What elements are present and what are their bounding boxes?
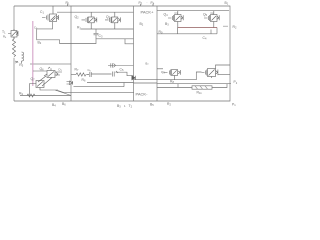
- svg-text:D1: D1: [59, 67, 63, 72]
- svg-text:R1: R1: [66, 1, 70, 6]
- svg-text:R6: R6: [82, 78, 86, 83]
- svg-text:.: .: [147, 0, 148, 4]
- svg-text:C4: C4: [203, 36, 207, 41]
- svg-text:R5: R5: [19, 63, 23, 68]
- svg-text:B7: B7: [146, 62, 150, 67]
- svg-text:R2: R2: [233, 25, 237, 30]
- svg-text:PACK-: PACK-: [136, 91, 149, 96]
- svg-text:P1: P1: [232, 103, 236, 108]
- svg-text:Q9: Q9: [161, 70, 165, 75]
- svg-text:C3: C3: [99, 34, 103, 39]
- svg-text:Q3: Q3: [106, 15, 111, 20]
- svg-text:B4: B4: [52, 103, 56, 108]
- svg-text:R9: R9: [159, 30, 163, 35]
- svg-text:B2: B2: [140, 22, 144, 27]
- svg-text:R7: R7: [75, 68, 79, 73]
- svg-text:B3: B3: [117, 104, 121, 109]
- svg-text:B6: B6: [62, 102, 66, 107]
- svg-text:R2: R2: [167, 102, 171, 107]
- svg-text:R11: R11: [197, 91, 203, 96]
- svg-text:P2: P2: [234, 80, 238, 85]
- svg-text:P3: P3: [139, 1, 143, 6]
- svg-text:Q5: Q5: [203, 13, 208, 18]
- svg-text:Q6: Q6: [40, 67, 45, 72]
- svg-text:C5: C5: [120, 68, 124, 73]
- svg-text:B1: B1: [225, 1, 229, 6]
- svg-text:R3: R3: [77, 26, 81, 31]
- svg-text:C6: C6: [88, 68, 92, 73]
- svg-text:R9: R9: [19, 92, 23, 97]
- svg-text:1: 1: [124, 104, 126, 108]
- svg-text:T2: T2: [129, 104, 133, 109]
- svg-text:PACK+: PACK+: [141, 9, 155, 14]
- svg-text:C1: C1: [40, 10, 44, 15]
- svg-text:B5: B5: [150, 103, 154, 108]
- svg-text:R8: R8: [170, 80, 174, 85]
- svg-text:B3: B3: [165, 22, 169, 27]
- svg-text:Q2: Q2: [75, 15, 80, 20]
- svg-text:Q7: Q7: [31, 77, 36, 82]
- svg-text:Q4: Q4: [164, 13, 169, 18]
- svg-text:P4: P4: [151, 1, 155, 6]
- svg-text:C9: C9: [34, 26, 38, 31]
- svg-text:R4: R4: [3, 35, 7, 40]
- svg-text:B2: B2: [38, 41, 42, 46]
